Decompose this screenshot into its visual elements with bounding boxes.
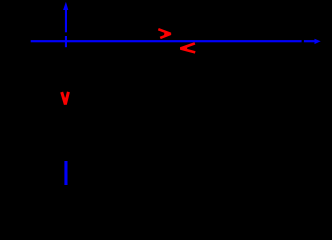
wire x-axis (horizontal blue line, right short segment after gap) [304,40,315,42]
y-axis (vertical blue line, upper part) [65,9,67,32]
x-axis arrowhead [315,39,321,44]
red circulation arrowhead below wire (points left) [180,43,195,52]
red circulation arrowhead above wire (points right) [158,29,170,38]
wire x-axis (horizontal blue line, left part) [31,40,302,42]
blue bar (label I) [64,161,67,185]
red arrowhead pointing down (v) [62,92,69,105]
y-axis (vertical blue line, segment through origin) [65,36,67,47]
y-axis arrowhead [63,2,68,10]
